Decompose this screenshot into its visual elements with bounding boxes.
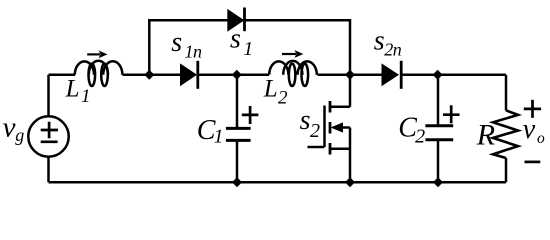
svg-text:2n: 2n [384, 40, 402, 60]
svg-text:s: s [300, 105, 311, 136]
svg-text:L: L [263, 76, 278, 103]
svg-text:L: L [65, 76, 80, 103]
svg-text:s: s [374, 25, 385, 56]
svg-text:s: s [171, 27, 182, 58]
svg-text:1: 1 [81, 86, 91, 107]
svg-text:1: 1 [214, 126, 224, 148]
svg-text:v: v [3, 112, 16, 144]
svg-text:s: s [230, 24, 241, 55]
svg-text:v: v [523, 114, 536, 145]
svg-text:2: 2 [415, 125, 425, 147]
svg-text:2: 2 [278, 88, 288, 109]
svg-text:R: R [476, 119, 495, 152]
svg-text:o: o [537, 130, 545, 147]
svg-text:g: g [15, 125, 24, 145]
svg-text:2: 2 [310, 120, 320, 142]
svg-text:1: 1 [243, 38, 253, 60]
svg-text:1n: 1n [185, 42, 203, 62]
